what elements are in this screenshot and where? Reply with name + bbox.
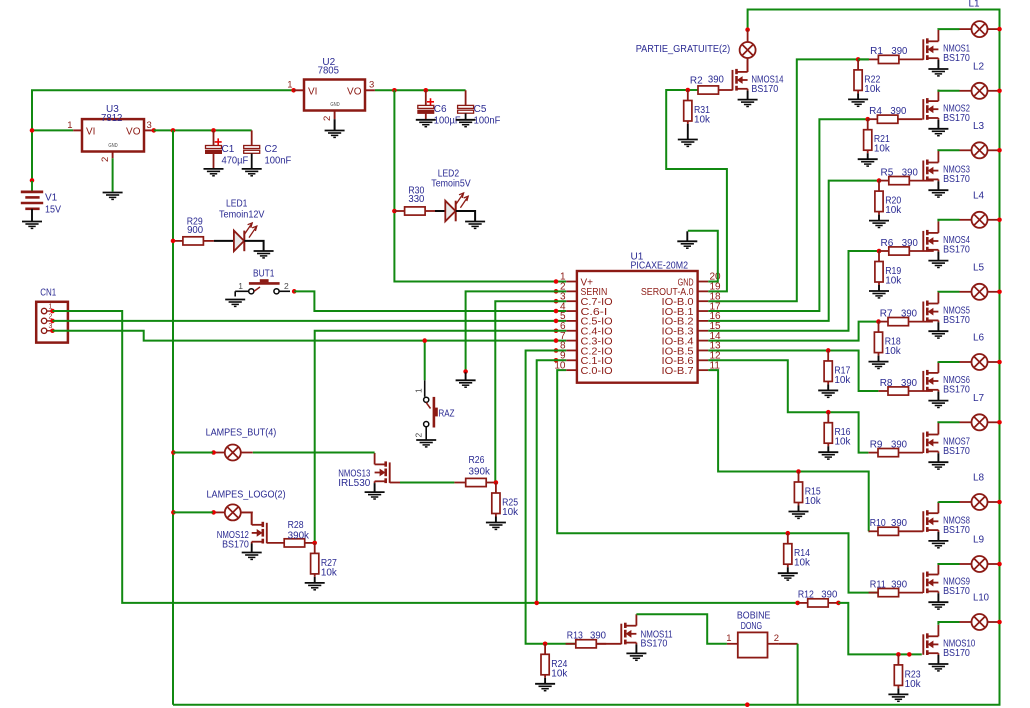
- wire to R6: [878, 250, 880, 252]
- junction R21: [865, 117, 870, 122]
- svg-text:VI: VI: [86, 127, 95, 138]
- wire SERIN to ground: [466, 291, 567, 371]
- wire 12V from U3 VO to caps: [154, 129, 252, 131]
- coil BOBINE DONG: [727, 632, 779, 657]
- junction lamp to 12V rail: [997, 89, 1002, 94]
- svg-text:390: 390: [708, 75, 724, 86]
- svg-text:PARTIE_GRATUITE(2): PARTIE_GRATUITE(2): [636, 44, 731, 55]
- junction R24: [543, 642, 548, 647]
- pin 1 of U1 V+: [566, 281, 577, 283]
- resistor R31 10k: [687, 90, 689, 101]
- resistor R23 10k: [897, 654, 899, 665]
- pin 15 of U1 IO-B.3: [698, 330, 709, 332]
- pin 11 of U1 IO-B.7: [698, 369, 709, 371]
- pin 12 of U1 IO-B.6: [698, 359, 709, 361]
- svg-text:2: 2: [284, 281, 289, 291]
- wire NMOS11 drain to BOBINE pin1: [636, 614, 727, 644]
- junction SERIN ground: [463, 369, 468, 374]
- junction 12V riser: [171, 128, 176, 133]
- svg-text:GND: GND: [108, 143, 117, 149]
- svg-text:2: 2: [100, 157, 111, 162]
- wire lamp to NMOS14 drain: [747, 58, 749, 72]
- junction R18: [876, 319, 881, 324]
- svg-text:C2: C2: [265, 144, 278, 155]
- svg-text:C5: C5: [474, 104, 487, 115]
- svg-text:R4: R4: [869, 106, 882, 117]
- svg-text:100nF: 100nF: [474, 116, 501, 127]
- wire U2 GND pin: [334, 119, 336, 130]
- svg-text:10k: 10k: [885, 346, 902, 357]
- svg-text:L5: L5: [973, 262, 985, 273]
- svg-text:330: 330: [408, 194, 424, 205]
- connector CN1: [36, 302, 68, 343]
- wire LAMPES_BUT lamp to NMOS13 drain: [253, 452, 375, 454]
- svg-text:L8: L8: [973, 473, 985, 484]
- resistor R4 390: [868, 118, 878, 120]
- transistor NMOS3 BS170: [923, 151, 938, 190]
- battery V1: [21, 181, 43, 221]
- pin 6 of U1 C.4-IO: [566, 330, 577, 332]
- svg-text:BS170: BS170: [943, 174, 970, 185]
- resistor R28 390k: [267, 542, 284, 544]
- voltage regulator U3 7812: [73, 119, 154, 158]
- svg-text:10k: 10k: [502, 507, 519, 518]
- junction R25: [494, 480, 499, 485]
- wire 12V to LAMPES_LOGO lamp: [173, 511, 212, 513]
- transistor NMOS14 BS170: [733, 60, 748, 99]
- svg-text:390: 390: [890, 106, 906, 117]
- wire IO-B.5 to R8: [708, 350, 878, 391]
- ground U1: [677, 231, 697, 248]
- svg-text:C1: C1: [222, 144, 235, 155]
- wire IO-B.2 to R5: [708, 181, 879, 321]
- lamp L10: [960, 614, 1000, 630]
- resistor R21 10k: [867, 119, 869, 130]
- wire 15V input rail top-left: [32, 90, 294, 181]
- wire NMOS7 drain to lamp: [938, 421, 959, 424]
- wire IO-B.4 to R7: [708, 322, 879, 341]
- voltage regulator U2 7805: [294, 80, 375, 120]
- pin 2 of U1 SERIN: [566, 290, 577, 292]
- junction R30: [392, 209, 397, 214]
- svg-text:BS170: BS170: [641, 639, 668, 650]
- transistor NMOS1 BS170: [923, 30, 938, 69]
- svg-text:R6: R6: [881, 238, 894, 249]
- svg-text:LAMPES_LOGO(2): LAMPES_LOGO(2): [207, 490, 286, 501]
- LED LED2 Temoin5V: [445, 193, 468, 221]
- svg-text:1: 1: [726, 633, 731, 644]
- resistor R16 10k: [827, 412, 829, 423]
- svg-text:BS170: BS170: [943, 586, 970, 597]
- junction 5V riser: [392, 88, 397, 93]
- lamp L9: [960, 556, 1000, 572]
- svg-text:PICAXE-20M2: PICAXE-20M2: [631, 261, 689, 272]
- wire CN1 pin1 to R12 net: [53, 311, 798, 603]
- svg-text:IO-B.7: IO-B.7: [662, 366, 695, 377]
- resistor R22 10k: [857, 59, 859, 70]
- svg-text:GND: GND: [330, 102, 339, 108]
- svg-text:LAMPES_BUT(4): LAMPES_BUT(4): [206, 427, 277, 438]
- wire IO-B.3 to R6: [708, 251, 879, 331]
- svg-text:L4: L4: [973, 190, 985, 201]
- resistor R20 10k: [878, 181, 880, 192]
- junction R15: [796, 469, 801, 474]
- resistor R24 10k: [544, 644, 546, 655]
- svg-text:10k: 10k: [885, 276, 902, 287]
- svg-text:L9: L9: [973, 535, 985, 546]
- wire LED1 cathode to ground: [244, 241, 263, 251]
- ground RAZ: [416, 440, 436, 447]
- svg-text:390: 390: [821, 590, 837, 601]
- wire CN1 pin3 to U1 C.3-IO: [53, 331, 567, 341]
- svg-text:10k: 10k: [321, 567, 338, 578]
- ground LED2: [465, 222, 485, 229]
- transistor NMOS12 BS170: [252, 513, 267, 552]
- svg-text:L1: L1: [969, 0, 981, 9]
- resistor R8 390: [879, 390, 889, 392]
- svg-text:1: 1: [238, 281, 243, 291]
- wire 15V to U2 VI: [291, 88, 296, 93]
- svg-text:CN1: CN1: [40, 288, 56, 299]
- junction bottom rail: [745, 702, 750, 707]
- junction lamp to 12V rail: [997, 290, 1002, 295]
- wire C.3-IO to RAZ: [424, 341, 426, 381]
- transistor NMOS6 BS170: [923, 361, 938, 400]
- svg-text:7805: 7805: [318, 65, 340, 76]
- svg-text:BS170: BS170: [943, 315, 970, 326]
- wire IO-B.7 to R10: [708, 370, 868, 531]
- svg-text:100µF: 100µF: [434, 116, 461, 127]
- svg-text:BS170: BS170: [943, 245, 970, 256]
- svg-text:390k: 390k: [288, 530, 310, 541]
- wire NMOS5 drain to lamp: [938, 291, 959, 293]
- svg-text:1: 1: [414, 388, 424, 393]
- svg-text:7812: 7812: [101, 113, 123, 124]
- junction R23: [896, 652, 901, 657]
- pin 7 of U1 C.3-IO: [566, 340, 577, 342]
- svg-text:10k: 10k: [905, 679, 922, 690]
- transistor NMOS13 IRL530: [375, 453, 390, 492]
- svg-text:10k: 10k: [885, 205, 902, 216]
- resistor R9 390: [869, 452, 879, 454]
- svg-text:2: 2: [322, 116, 333, 121]
- wire C.0-IO to R11 net: [557, 370, 878, 592]
- junction lamp pin: [211, 450, 216, 455]
- junction lamp to 12V rail: [997, 148, 1002, 153]
- lamp L8: [960, 494, 1000, 510]
- junction CN1 pin2: [50, 319, 55, 324]
- wire R12 to NMOS10 gate: [838, 603, 921, 655]
- svg-text:15V: 15V: [45, 205, 61, 216]
- junction R31: [686, 88, 691, 93]
- wire IO-B.6 to R9: [708, 360, 868, 452]
- resistor R6 390: [879, 250, 889, 252]
- junction lamp to 12V rail: [997, 27, 1002, 32]
- ground U3: [103, 193, 123, 200]
- pin 3 of U1 C.7-IO: [566, 300, 577, 302]
- wire V1 to U3 VI: [32, 129, 73, 131]
- svg-text:1: 1: [67, 120, 72, 131]
- svg-text:BOBINE: BOBINE: [737, 611, 771, 622]
- junction C.1-IO net: [534, 601, 539, 606]
- svg-text:R26: R26: [469, 455, 485, 466]
- wire NMOS1 drain to lamp: [938, 28, 959, 31]
- junction RAZ: [422, 338, 427, 343]
- svg-text:390: 390: [891, 439, 907, 450]
- capacitor C1 470uF: [206, 130, 222, 169]
- wire 5V from U2 VO: [375, 89, 466, 91]
- ground BUT1: [225, 300, 245, 307]
- svg-text:DONG: DONG: [741, 621, 763, 632]
- junction lamp to 12V rail: [997, 360, 1002, 365]
- junction battery top: [30, 178, 35, 183]
- svg-text:BS170: BS170: [943, 53, 970, 64]
- wire CN1 pin2 to U1 C.5-IO: [53, 320, 567, 322]
- svg-text:L6: L6: [973, 333, 985, 344]
- wire IO-B.0 to R1: [708, 59, 869, 301]
- wire NMOS10 drain to lamp: [938, 622, 959, 625]
- resistor R2 390: [688, 89, 698, 91]
- wire NMOS2 drain to lamp: [938, 90, 959, 91]
- junction R22: [856, 57, 861, 62]
- junction lamp left: [171, 510, 176, 515]
- wire NMOS8 drain to lamp: [938, 501, 959, 503]
- pin 13 of U1 IO-B.5: [698, 349, 709, 351]
- svg-text:VO: VO: [347, 86, 362, 97]
- pin 8 of U1 C.2-IO: [566, 349, 577, 351]
- wire U3 GND pin: [112, 158, 114, 191]
- junction LED1 branch: [171, 239, 176, 244]
- svg-text:390: 390: [901, 378, 917, 389]
- svg-text:390: 390: [891, 518, 907, 529]
- resistor R12 390: [795, 601, 800, 606]
- svg-text:10k: 10k: [551, 668, 568, 679]
- transistor NMOS10 BS170: [923, 625, 938, 664]
- capacitor C2 100nF: [214, 129, 252, 131]
- lamp L1: [960, 21, 1000, 37]
- svg-text:R5: R5: [881, 167, 894, 178]
- resistor R7 390: [879, 321, 889, 323]
- wire 5V rail to U1 V+: [394, 90, 566, 281]
- svg-text:900: 900: [187, 225, 203, 236]
- junction CN1 pin3: [50, 328, 55, 333]
- svg-text:C6: C6: [434, 104, 447, 115]
- svg-text:10k: 10k: [874, 144, 891, 155]
- pin 9 of U1 C.1-IO: [566, 359, 577, 361]
- pin 14 of U1 IO-B.4: [698, 340, 709, 342]
- svg-text:BS170: BS170: [943, 648, 970, 659]
- wire to R1: [858, 58, 869, 60]
- wire R30 to LED2: [435, 210, 445, 212]
- junction C1: [211, 128, 216, 133]
- ground SERIN: [456, 372, 476, 387]
- junction lamp to 12V rail: [997, 500, 1002, 505]
- svg-text:R10: R10: [870, 518, 886, 529]
- resistor R11 390: [869, 592, 879, 594]
- pin 19 of U1 SEROUT-A.0: [698, 290, 709, 292]
- wire 12V to LAMPES_BUT lamp: [173, 452, 212, 454]
- wire LED2 cathode to ground: [456, 211, 475, 222]
- svg-text:LED1: LED1: [226, 198, 248, 209]
- junction R16: [826, 410, 831, 415]
- svg-text:C.0-IO: C.0-IO: [581, 366, 613, 377]
- resistor R18 10k: [878, 322, 880, 333]
- svg-text:3: 3: [369, 80, 374, 91]
- lamp L3: [960, 142, 1000, 158]
- svg-text:R11: R11: [870, 579, 886, 590]
- wire C.7-IO to R26 node: [495, 301, 566, 482]
- svg-text:10k: 10k: [794, 558, 811, 569]
- pin 5 of U1 C.5-IO: [566, 320, 577, 322]
- svg-text:R13: R13: [567, 631, 583, 642]
- svg-text:BS170: BS170: [943, 385, 970, 396]
- capacitor C5 100nF: [458, 90, 474, 120]
- svg-text:390: 390: [891, 579, 907, 590]
- svg-text:BUT1: BUT1: [253, 269, 275, 280]
- resistor R15 10k: [798, 472, 800, 483]
- ground U2: [325, 131, 345, 138]
- resistor R27 10k: [314, 543, 316, 554]
- junction U3 VO: [152, 128, 157, 133]
- svg-text:R2: R2: [690, 76, 703, 87]
- wire IO-B.1 to R4: [708, 119, 868, 311]
- junction R12 right: [836, 601, 841, 606]
- lamp L2: [960, 83, 1000, 99]
- junction R27: [312, 541, 317, 546]
- svg-text:R9: R9: [870, 439, 883, 450]
- svg-text:RAZ: RAZ: [439, 409, 455, 420]
- svg-text:L2: L2: [973, 61, 985, 72]
- wire SEROUT-A.0 to NMOS14 gate node: [666, 90, 727, 291]
- lamp L5: [960, 284, 1000, 300]
- junction lamp top: [745, 27, 750, 32]
- wire U1 GND pin20: [688, 231, 718, 282]
- wire C.1-IO to R12 net: [537, 360, 567, 603]
- transistor NMOS11 BS170: [621, 614, 636, 653]
- wire R13 to NMOS11 gate: [596, 643, 621, 645]
- wire to R5: [878, 180, 880, 182]
- junction R17: [826, 348, 831, 353]
- junction dots at U1 left pins: [554, 279, 559, 284]
- junction lamp to 12V rail: [997, 420, 1002, 425]
- resistor R17 10k: [827, 350, 829, 361]
- junction lamp to 12V rail: [997, 562, 1002, 567]
- svg-text:VO: VO: [126, 127, 141, 138]
- svg-text:390: 390: [891, 46, 907, 57]
- svg-text:BS170: BS170: [222, 539, 249, 550]
- ground V1: [22, 222, 42, 229]
- wire LAMPES_LOGO lamp to NMOS12 drain: [241, 512, 252, 524]
- wire NMOS6 drain to lamp: [938, 360, 959, 363]
- svg-text:L3: L3: [973, 121, 985, 132]
- wire to R4: [867, 118, 869, 120]
- transistor NMOS5 BS170: [923, 292, 938, 331]
- junction C6: [424, 88, 429, 93]
- transistor NMOS4 BS170: [923, 221, 938, 260]
- svg-text:10k: 10k: [835, 437, 852, 448]
- push button BUT1: [235, 279, 290, 296]
- pin 4 of U1 C.6-I: [566, 310, 577, 312]
- wire R29 to LED1: [214, 240, 234, 242]
- svg-text:Temoin12V: Temoin12V: [219, 210, 265, 221]
- svg-text:R7: R7: [880, 308, 893, 319]
- wire NMOS9 drain to lamp: [938, 563, 959, 564]
- junction CN1 pin1: [50, 309, 55, 314]
- svg-text:R8: R8: [880, 378, 893, 389]
- transistor NMOS7 BS170: [923, 423, 938, 462]
- svg-text:R1: R1: [870, 46, 883, 57]
- svg-text:R12: R12: [798, 590, 814, 601]
- svg-text:390: 390: [902, 238, 918, 249]
- junction NMOS10 gate: [907, 652, 912, 657]
- svg-text:10k: 10k: [805, 496, 822, 507]
- svg-text:IRL530: IRL530: [338, 478, 371, 489]
- svg-text:10k: 10k: [834, 375, 851, 386]
- resistor R5 390: [879, 180, 889, 182]
- resistor R14 10k: [787, 533, 789, 544]
- LED LED1 Temoin12V: [234, 223, 257, 251]
- pin 17 of U1 IO-B.1: [698, 310, 709, 312]
- junction BUT1 output: [292, 289, 297, 294]
- wire 12V top rail: [173, 10, 1000, 705]
- pin 20 of U1 GND: [698, 281, 709, 283]
- svg-text:BS170: BS170: [751, 84, 778, 95]
- svg-text:Temoin5V: Temoin5V: [431, 179, 471, 190]
- transistor NMOS8 BS170: [923, 502, 938, 541]
- lamp L7: [960, 414, 1000, 430]
- ground LED1: [254, 251, 274, 258]
- svg-text:390: 390: [901, 308, 917, 319]
- resistor R1 390: [869, 58, 879, 60]
- resistor R19 10k: [878, 251, 880, 262]
- wire NMOS13 gate to R26: [400, 482, 454, 484]
- svg-text:L10: L10: [973, 593, 989, 604]
- wire to R7: [878, 321, 880, 323]
- junction lamp pin: [211, 510, 216, 515]
- svg-text:100nF: 100nF: [265, 156, 292, 167]
- junction R14: [786, 531, 791, 536]
- transistor NMOS9 BS170: [923, 563, 938, 602]
- junction R19: [877, 249, 882, 254]
- wire BUT1 to U1 C.6-I: [294, 291, 566, 311]
- svg-text:3: 3: [147, 120, 152, 131]
- junction lamp left: [171, 450, 176, 455]
- wire BOBINE pin2 to 12V rail: [778, 643, 797, 645]
- wire C.2-IO to R13 node: [526, 350, 576, 643]
- junction R20: [877, 178, 882, 183]
- junction: [30, 128, 35, 133]
- svg-text:390k: 390k: [469, 466, 491, 477]
- lamp L6: [960, 354, 1000, 370]
- wire NMOS3 drain to lamp: [938, 149, 959, 152]
- pin 16 of U1 IO-B.2: [698, 320, 709, 322]
- svg-text:V1: V1: [45, 193, 58, 204]
- svg-text:10k: 10k: [694, 115, 711, 126]
- microcontroller U1 PICAXE-20M2: [577, 271, 698, 383]
- resistor R10 390: [869, 530, 879, 532]
- wire 12V vertical rail: [172, 130, 174, 704]
- lamp L4: [960, 212, 1000, 228]
- wire NMOS4 drain to lamp: [938, 220, 959, 222]
- svg-text:2: 2: [774, 633, 779, 644]
- svg-text:10k: 10k: [864, 84, 881, 95]
- svg-text:L7: L7: [973, 393, 985, 404]
- transistor NMOS2 BS170: [923, 90, 938, 129]
- svg-text:390: 390: [902, 167, 918, 178]
- svg-text:1: 1: [287, 80, 292, 91]
- svg-text:VI: VI: [308, 86, 317, 97]
- svg-text:390: 390: [590, 631, 606, 642]
